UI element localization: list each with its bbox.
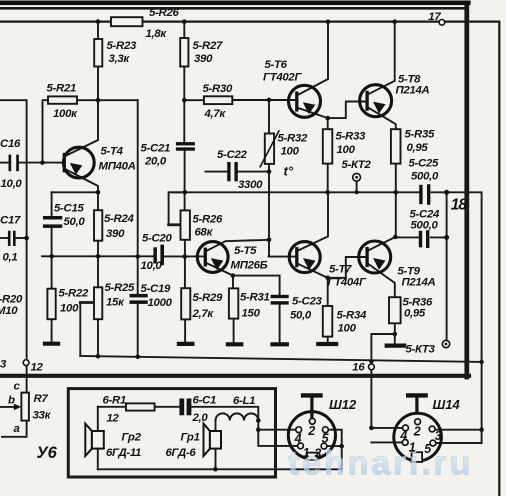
svg-text:500,0: 500,0 (411, 171, 439, 183)
svg-text:5-Т5: 5-Т5 (234, 245, 257, 257)
svg-text:390: 390 (194, 53, 213, 65)
svg-text:5-R34: 5-R34 (337, 310, 367, 322)
svg-text:5-R27: 5-R27 (193, 40, 223, 52)
svg-text:6ГД-6: 6ГД-6 (166, 447, 197, 459)
svg-text:5-R35: 5-R35 (405, 129, 435, 141)
svg-text:12: 12 (107, 413, 120, 425)
svg-text:5-R26: 5-R26 (149, 7, 179, 19)
svg-text:2,7к: 2,7к (192, 308, 215, 320)
svg-text:5-R22: 5-R22 (59, 288, 89, 300)
svg-text:3: 3 (314, 447, 321, 461)
svg-text:3: 3 (435, 429, 442, 443)
svg-text:5-С25: 5-С25 (409, 158, 439, 170)
svg-text:П214А: П214А (402, 277, 436, 289)
svg-text:R7: R7 (34, 393, 49, 405)
svg-text:ГТ404Г: ГТ404Г (328, 277, 367, 289)
svg-text:10,0: 10,0 (141, 260, 163, 272)
svg-text:b: b (8, 395, 15, 407)
svg-text:6-С1: 6-С1 (193, 395, 217, 407)
svg-text:100: 100 (338, 323, 357, 335)
svg-text:100к: 100к (53, 108, 78, 120)
svg-text:16: 16 (352, 361, 365, 373)
svg-text:5-Т7: 5-Т7 (329, 264, 352, 276)
svg-text:100: 100 (281, 146, 300, 158)
svg-text:4,7к: 4,7к (204, 108, 227, 120)
svg-text:2,0: 2,0 (192, 412, 209, 424)
svg-text:50,0: 50,0 (64, 216, 86, 228)
svg-text:5-R25: 5-R25 (105, 282, 135, 294)
svg-text:1: 1 (303, 446, 310, 460)
svg-text:5-R21: 5-R21 (47, 83, 77, 95)
svg-text:6-L1: 6-L1 (233, 395, 255, 407)
svg-text:5-R33: 5-R33 (336, 131, 366, 143)
svg-text:4: 4 (399, 429, 407, 443)
svg-text:10,0: 10,0 (1, 178, 23, 190)
svg-text:12: 12 (31, 362, 44, 374)
svg-text:0,95: 0,95 (404, 308, 426, 320)
svg-text:У6: У6 (37, 444, 58, 462)
svg-text:5: 5 (424, 442, 432, 456)
svg-text:5-R24: 5-R24 (104, 213, 134, 225)
svg-text:Гр2: Гр2 (122, 432, 142, 444)
svg-text:5-R32: 5-R32 (278, 133, 308, 145)
svg-text:5-Т6: 5-Т6 (265, 59, 288, 71)
svg-text:5-С19: 5-С19 (141, 283, 171, 295)
svg-text:5-С15: 5-С15 (54, 203, 84, 215)
svg-text:2: 2 (307, 424, 315, 438)
svg-text:5-С22: 5-С22 (217, 149, 247, 161)
svg-text:П214А: П214А (396, 85, 430, 97)
svg-text:5-КТ3: 5-КТ3 (406, 344, 436, 356)
svg-text:5-С17: 5-С17 (0, 215, 21, 227)
svg-text:Ш12: Ш12 (329, 397, 357, 412)
svg-text:c: c (14, 381, 21, 393)
svg-text:МП40А: МП40А (99, 161, 136, 173)
svg-text:М10: М10 (0, 305, 18, 317)
svg-text:150: 150 (242, 308, 261, 320)
svg-text:50,0: 50,0 (290, 310, 312, 322)
svg-text:0,1: 0,1 (3, 252, 18, 264)
svg-text:Ш14: Ш14 (433, 397, 461, 412)
svg-text:4: 4 (294, 432, 302, 446)
svg-text:5-Т4: 5-Т4 (101, 146, 124, 158)
svg-text:100: 100 (337, 144, 356, 156)
svg-text:500,0: 500,0 (411, 220, 439, 232)
svg-text:2: 2 (413, 425, 421, 439)
svg-text:17: 17 (428, 11, 441, 23)
svg-text:5-С16: 5-С16 (0, 138, 21, 150)
svg-text:6ГД-11: 6ГД-11 (106, 447, 141, 459)
svg-text:1,8к: 1,8к (146, 28, 168, 40)
svg-text:100: 100 (60, 303, 79, 315)
svg-text:ГТ402Г: ГТ402Г (263, 72, 302, 84)
svg-text:t°: t° (284, 164, 294, 179)
svg-text:3,3к: 3,3к (109, 53, 131, 65)
svg-text:5-R26: 5-R26 (193, 214, 223, 226)
svg-text:20,0: 20,0 (144, 156, 167, 168)
svg-text:0,95: 0,95 (407, 142, 429, 154)
svg-text:a: a (14, 423, 20, 435)
svg-text:390: 390 (106, 228, 125, 240)
svg-text:5-КТ2: 5-КТ2 (342, 159, 372, 171)
svg-text:5-С20: 5-С20 (142, 233, 172, 245)
svg-text:5-R29: 5-R29 (193, 292, 223, 304)
svg-text:1000: 1000 (148, 297, 173, 309)
svg-text:3: 3 (0, 359, 7, 371)
svg-text:МП26Б: МП26Б (231, 260, 268, 272)
svg-text:5-R20: 5-R20 (0, 294, 23, 306)
svg-text:5-С21: 5-С21 (141, 143, 171, 155)
svg-text:5: 5 (322, 432, 330, 446)
svg-text:68к: 68к (195, 227, 214, 239)
svg-text:1: 1 (409, 441, 416, 455)
svg-text:5-С23: 5-С23 (292, 296, 322, 308)
svg-text:5-R23: 5-R23 (107, 40, 137, 52)
svg-text:3300: 3300 (238, 179, 263, 191)
svg-text:5-R31: 5-R31 (240, 292, 270, 304)
svg-text:5-R30: 5-R30 (203, 83, 233, 95)
svg-text:6-R1: 6-R1 (103, 395, 127, 407)
svg-text:33к: 33к (33, 410, 52, 422)
svg-text:18: 18 (451, 197, 468, 214)
svg-text:Гр1: Гр1 (181, 432, 200, 444)
svg-text:15к: 15к (106, 297, 125, 309)
